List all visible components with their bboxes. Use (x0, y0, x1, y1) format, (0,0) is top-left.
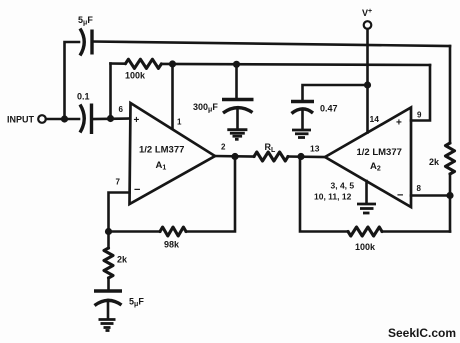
resistor R1 100k top (125, 59, 161, 80)
ground under C5 (292, 130, 311, 138)
svg-text:+: + (396, 118, 402, 129)
node A1 output (231, 153, 238, 160)
svg-text:3, 4, 5: 3, 4, 5 (331, 181, 355, 191)
svg-text:7: 7 (116, 178, 121, 187)
wire 100k right to pin9 corner (161, 64, 430, 65)
svg-text:6: 6 (119, 105, 124, 114)
wire V+ down to pin14 (366, 29, 369, 133)
node pin13 (297, 153, 304, 160)
wire input to C2 (46, 118, 79, 121)
ground under A2 (357, 204, 376, 213)
svg-text:0.1: 0.1 (77, 92, 90, 102)
capacitor C4 300uF (193, 100, 254, 129)
wire 100k left leg (109, 64, 112, 119)
wire 300uF tap down (235, 64, 238, 99)
wire A1 feedback down (186, 157, 235, 232)
resistor R3 98k (160, 227, 186, 249)
svg-text:−: − (397, 190, 403, 202)
svg-text:2k: 2k (429, 157, 440, 167)
wire 2k to C3 (107, 278, 110, 291)
node pin6 junction (107, 115, 114, 122)
wire A1 output to RL (215, 155, 254, 158)
svg-text:1/2 LM377: 1/2 LM377 (357, 147, 402, 158)
wire C1 to top-right corner (wire 1) (93, 42, 451, 47)
op-amp U1 1/2 LM377 A1 (130, 103, 216, 204)
svg-text:0.47: 0.47 (320, 104, 338, 114)
svg-text:10, 11, 12: 10, 11, 12 (314, 192, 352, 202)
wire pin7 (109, 193, 130, 232)
pin labels 3,4,5 / 10,11,12 (314, 181, 354, 202)
wire C2 to pin6 (92, 117, 130, 120)
wire to 0.47 (303, 85, 368, 102)
svg-text:300μF: 300μF (193, 102, 218, 114)
wire 100k to pin13 node (300, 157, 348, 232)
node pin8 junction (446, 192, 453, 199)
wire RL to A2 input (288, 155, 325, 158)
svg-text:−: − (134, 184, 140, 196)
wire 98k to pin7 node (109, 230, 161, 233)
wire 2k to pin8 node (449, 174, 452, 232)
wire A2 ground stem (365, 181, 368, 204)
svg-text:+: + (134, 115, 140, 126)
op-amp U2 1/2 LM377 A2 (325, 108, 411, 208)
capacitor C1 5uF (78, 15, 93, 56)
wire junction down to 2k (107, 232, 110, 249)
V+ terminal (362, 8, 372, 29)
resistor R6 2k right (429, 143, 455, 174)
wire 2 (100k top rail) (111, 62, 126, 65)
svg-text:1: 1 (177, 118, 182, 127)
svg-text:98k: 98k (164, 240, 180, 250)
svg-text:9: 9 (417, 111, 422, 120)
node input junction (61, 115, 68, 122)
wire pin9 L (411, 65, 430, 121)
wire right vertical down to 2k (449, 46, 452, 143)
ground under C4 (227, 130, 247, 140)
svg-text:SeekIC.com: SeekIC.com (388, 326, 456, 340)
capacitor C5 0.47 (291, 102, 338, 130)
resistor RL (254, 142, 288, 161)
svg-text:8: 8 (417, 184, 422, 193)
wire pin8 stub (411, 194, 450, 197)
svg-text:INPUT: INPUT (7, 115, 35, 125)
node pin1 junction (169, 60, 176, 67)
wire pin1 (171, 64, 174, 129)
wire bottom right feedback (382, 230, 450, 233)
svg-text:100k: 100k (355, 242, 376, 252)
resistor R5 100k bottom (348, 227, 382, 252)
svg-text:14: 14 (370, 114, 380, 124)
svg-text:13: 13 (310, 144, 320, 154)
svg-text:2: 2 (221, 143, 226, 152)
node V+ / 0.47 junction (364, 81, 371, 88)
capacitor C2 0.1 (77, 92, 92, 135)
node pin7 junction (105, 228, 112, 235)
capacitor C3 5uF (94, 291, 144, 319)
resistor R2 2k left (104, 248, 128, 278)
node 300uF tap (233, 61, 240, 68)
svg-text:100k: 100k (125, 71, 146, 81)
ground under C3 (99, 320, 116, 331)
svg-text:2k: 2k (117, 255, 128, 265)
wire input junction up to C1 (65, 42, 80, 119)
INPUT terminal (7, 115, 46, 125)
svg-text:1/2 LM377: 1/2 LM377 (139, 145, 184, 156)
